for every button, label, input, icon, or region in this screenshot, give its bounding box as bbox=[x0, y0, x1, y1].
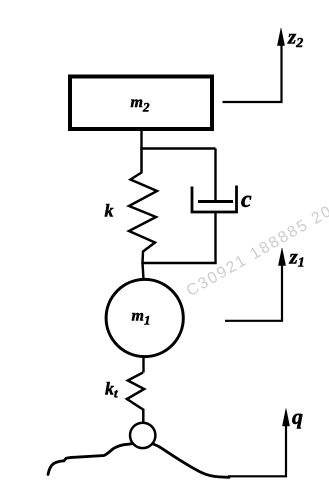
z1 axis line bbox=[225, 262, 282, 321]
top bar of spring-damper pair bbox=[140, 147, 215, 150]
wheel circle bbox=[130, 423, 155, 448]
svg-text:kt: kt bbox=[105, 379, 118, 401]
spring kt bbox=[127, 373, 144, 423]
damper piston plate bbox=[198, 200, 233, 203]
ground profile curve bbox=[48, 442, 229, 477]
mass circle m1 bbox=[106, 279, 183, 356]
q axis arrowhead bbox=[282, 409, 289, 427]
q axis line bbox=[228, 423, 286, 476]
svg-text:C30921 188885 20: C30921 188885 20 bbox=[184, 202, 329, 300]
z2 axis arrowhead bbox=[277, 28, 284, 46]
watermark text bbox=[184, 202, 329, 300]
wire rect-bottom to top bar bbox=[140, 130, 142, 149]
mass block m2 bbox=[70, 77, 212, 130]
wire m1 to spring kt bbox=[142, 356, 144, 373]
spring k bbox=[129, 149, 157, 264]
z2 axis line bbox=[223, 42, 282, 102]
wire damper to bottom bar bbox=[214, 212, 216, 263]
z1 axis arrowhead bbox=[278, 248, 285, 266]
damper rod bbox=[214, 149, 216, 201]
svg-text:k: k bbox=[105, 201, 114, 221]
damper cylinder cup bbox=[192, 186, 237, 213]
bottom bar of spring-damper pair bbox=[141, 262, 216, 265]
wire bottom bar to mass m1 bbox=[143, 263, 144, 279]
svg-text:z1: z1 bbox=[289, 245, 305, 271]
svg-text:c: c bbox=[241, 187, 252, 213]
svg-text:q: q bbox=[292, 404, 303, 429]
svg-text:z2: z2 bbox=[287, 25, 303, 52]
